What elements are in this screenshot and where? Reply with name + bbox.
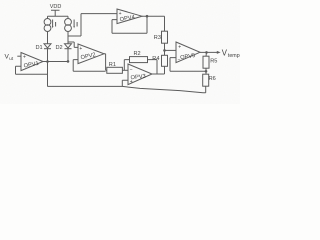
- diode D2: [65, 44, 72, 48]
- svg-text:R6: R6: [209, 76, 216, 82]
- diode D1: [44, 44, 51, 48]
- wire OPV2 feedback: [73, 60, 105, 72]
- svg-text:R3: R3: [154, 35, 161, 41]
- svg-text:R5: R5: [210, 59, 217, 65]
- wire OPV5 feedback: [170, 58, 206, 72]
- wire D2 cathode down: [67, 49, 69, 62]
- wire R2 right to OPV3 output: [148, 60, 158, 74]
- node C junction: [163, 49, 166, 52]
- current source I1 arrow: [52, 20, 54, 27]
- svg-text:+: +: [178, 45, 181, 51]
- supply rail wire: [48, 16, 69, 18]
- svg-text:R2: R2: [134, 51, 141, 57]
- wire CS1 to D1: [47, 32, 49, 44]
- node B junction: [67, 60, 70, 63]
- wire OPV2 output to R1: [106, 69, 107, 71]
- op-amp OPV3: [128, 64, 152, 85]
- junction OPV5 output: [205, 51, 208, 54]
- resistor R2: [130, 57, 148, 63]
- svg-text:R1: R1: [109, 62, 116, 68]
- bottom bus wire: [48, 86, 206, 92]
- svg-text:D2: D2: [56, 45, 63, 51]
- wire R5 to R6: [205, 68, 207, 74]
- junction OPV4 output: [146, 15, 149, 18]
- resistor R4: [162, 55, 168, 66]
- current source I2: [65, 19, 72, 26]
- op-amp OPV4: [117, 9, 142, 24]
- wire D2 anode to OPV2 input: [68, 42, 78, 47]
- svg-text:R4: R4: [152, 56, 159, 62]
- svg-text:VDD: VDD: [50, 4, 62, 10]
- wire Vut to OPV1: [17, 55, 21, 57]
- wire D1 cathode to node A: [47, 49, 49, 62]
- current source I2 arrow: [73, 20, 75, 27]
- wire R6 to bottom bus: [205, 86, 207, 93]
- wire CS2 to D2: [67, 32, 69, 44]
- junction R5 R6: [205, 70, 208, 73]
- wire OPV1 output to node A: [43, 61, 68, 63]
- resistor R6: [203, 74, 209, 86]
- wire R1 to OPV3 inverting input: [122, 69, 128, 71]
- arrow to Vtemp: [217, 51, 221, 54]
- power rail VDD symbol: [51, 10, 60, 16]
- node A junction: [46, 60, 49, 63]
- current source I1: [44, 19, 51, 26]
- wire OPV4 feedback: [112, 16, 147, 33]
- resistor R1: [107, 67, 123, 73]
- svg-text:+: +: [79, 46, 82, 52]
- wire OPV1 feedback: [16, 66, 48, 74]
- wire node C to OPV5 input: [165, 49, 177, 51]
- wire R2 left to input node: [124, 60, 129, 71]
- wire R4 to OPV3 output: [164, 66, 166, 74]
- wire OPV5 output to R5: [205, 52, 208, 56]
- wire OPV2 output down: [104, 54, 106, 71]
- svg-text:V: V: [222, 48, 228, 57]
- wire OPV3 non-inverting input to bus: [122, 80, 128, 86]
- svg-text:+: +: [23, 55, 26, 61]
- resistor R3: [162, 31, 168, 43]
- svg-text:temp: temp: [228, 53, 240, 59]
- op-amp OPV1: [21, 53, 43, 71]
- wire OPV4 output to R3: [142, 16, 165, 31]
- wire OPV3 output: [152, 73, 165, 75]
- wire OPV5 output: [200, 51, 217, 53]
- op-amp OPV5: [176, 42, 200, 63]
- wire D2 anode to OPV4 input: [68, 14, 81, 36]
- op-amp OPV2: [78, 44, 104, 64]
- wire OPV4 non-inverting input: [81, 13, 117, 15]
- paper texture: [0, 0, 240, 104]
- wire R3 to node C: [164, 43, 166, 55]
- resistor R5: [203, 56, 209, 68]
- svg-text:−: −: [130, 67, 133, 73]
- svg-text:D1: D1: [36, 45, 43, 51]
- wire node A down to bottom bus: [47, 62, 49, 87]
